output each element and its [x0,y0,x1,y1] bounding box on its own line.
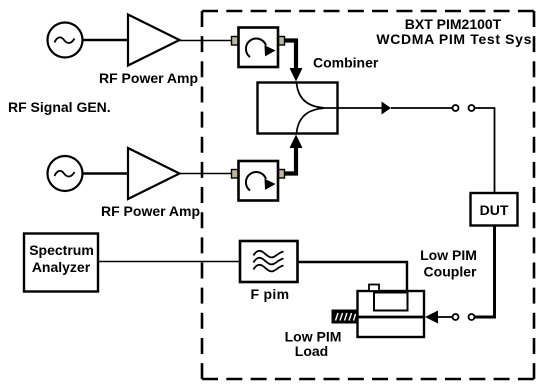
connector J2 (right circle, top) [469,105,475,111]
svg-text:Spectrum: Spectrum [29,242,94,258]
wire J4 to coupler (arrow points left) [438,316,453,318]
DUT box [471,193,518,226]
signal generator G1 (top) [48,23,83,58]
connector J1 (left circle, top) [453,105,459,111]
svg-text:Coupler: Coupler [424,264,477,280]
svg-text:BXT PIM2100T: BXT PIM2100T [405,16,502,32]
Low PIM load (hatched) [332,310,358,323]
wire G2 to amp A2 [83,172,129,174]
isolator U2 (bottom) [232,161,285,201]
svg-text:RF Signal GEN.: RF Signal GEN. [8,99,111,115]
filter F pim [240,241,298,282]
svg-text:Load: Load [295,343,328,359]
combiner CB1 [258,83,338,134]
heavy wire U1 to combiner (with down arrow) [285,41,303,82]
dashed enclosure: BXT PIM2100T test system boundary [202,11,534,379]
connector J4 (left circle, bottom) [453,314,459,320]
wire A1 to isolator U1 [180,40,233,42]
Low PIM coupler body [356,285,424,338]
Spectrum Analyzer box [24,234,98,292]
svg-text:F pim: F pim [251,286,290,302]
svg-text:RF Power Amp: RF Power Amp [101,203,200,219]
svg-text:Combiner: Combiner [313,55,379,71]
op-amp A1: RF Power Amp (top) [128,15,180,66]
wire G1 to amp A1 [83,39,129,41]
svg-text:Analyzer: Analyzer [32,259,91,275]
wire arrow to connector J1 [391,107,452,109]
heavy wire U2 to combiner (with up arrow) [285,135,303,174]
svg-text:RF Power Amp: RF Power Amp [99,70,198,86]
signal generator G2 (bottom) [48,156,83,191]
wire combiner output [338,107,383,109]
arrow into coupler (points left) [425,311,438,324]
op-amp A2: RF Power Amp (bottom) [128,148,180,199]
wire F pim filter to coupler [298,262,408,292]
wire A2 to isolator U2 [180,173,233,175]
connector J3 (right circle, bottom) [469,314,475,320]
wire J2 to DUT [475,108,495,193]
wire analyzer to filter [98,261,240,263]
heavy wire DUT to connector J3 [475,226,495,318]
svg-text:WCDMA PIM Test Sys.: WCDMA PIM Test Sys. [376,31,536,47]
svg-text:Low PIM: Low PIM [420,247,477,263]
isolator U1 (top) [232,28,285,68]
arrow on combiner output (points right) [382,102,392,115]
svg-text:DUT: DUT [480,202,509,218]
